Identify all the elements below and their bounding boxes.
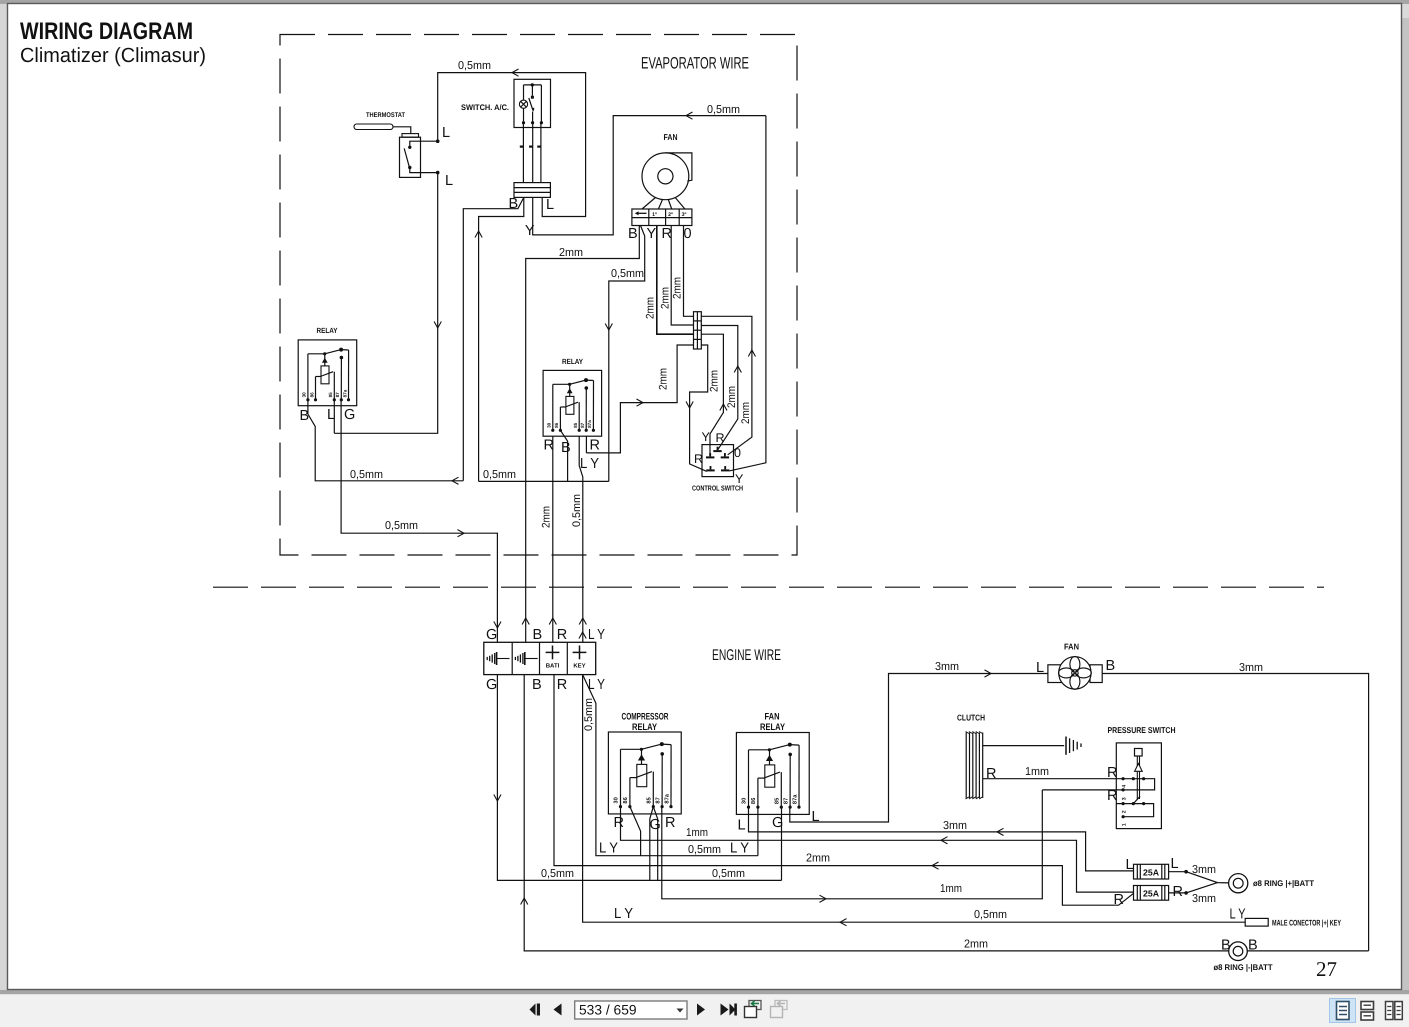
svg-text:MALE CONECTOR |+| KEY: MALE CONECTOR |+| KEY — [1272, 919, 1341, 928]
fuse F1 25A — [1134, 864, 1169, 879]
svg-text:85: 85 — [775, 797, 781, 804]
wire LY diag to compressor (0,5mm) — [583, 675, 758, 856]
svg-text:L: L — [445, 173, 453, 189]
wire left relay 85 (L) — [333, 400, 335, 434]
svg-text:3mm: 3mm — [1239, 662, 1263, 674]
svg-text:3mm: 3mm — [943, 820, 967, 832]
wire switch B to left — [463, 197, 524, 480]
wire fan relay 87 (L) to engine fan — [790, 674, 1048, 823]
ground symbol cell1 — [487, 652, 509, 665]
wire ladder cell3 to control switch Y — [701, 334, 723, 456]
svg-text:3: 3 — [1121, 797, 1127, 800]
svg-text:FAN: FAN — [1064, 642, 1079, 652]
svg-text:R: R — [716, 431, 725, 445]
KEY cell plus — [573, 651, 587, 653]
strip cell arrow glyph — [635, 211, 639, 215]
engine fan motor — [1048, 665, 1062, 683]
svg-text:0,5mm: 0,5mm — [974, 909, 1007, 921]
svg-text:R: R — [614, 815, 624, 831]
svg-text:25A: 25A — [1143, 868, 1160, 878]
svg-text:EVAPORATOR WIRE: EVAPORATOR WIRE — [641, 55, 749, 73]
wire fan B 3mm to right frame — [1102, 674, 1368, 951]
wire fan R to junction ladder — [671, 226, 693, 326]
svg-text:L Y: L Y — [580, 456, 599, 472]
svg-text:ø8 RING |-|BATT: ø8 RING |-|BATT — [1214, 963, 1273, 972]
control switch contacts — [713, 450, 721, 452]
svg-text:PRESSURE SWITCH: PRESSURE SWITCH — [1108, 725, 1176, 735]
relay K1 box — [298, 340, 357, 406]
relay K4 internals — [742, 743, 801, 809]
clutch coil — [966, 732, 983, 799]
svg-text:87a: 87a — [792, 794, 798, 804]
relay K3 box — [608, 732, 681, 814]
svg-text:G: G — [486, 677, 497, 693]
thermostat contacts — [408, 146, 411, 149]
pressure switch box — [1116, 743, 1161, 829]
fuse F1 output 3mm to ring — [1169, 871, 1187, 873]
switch A/C wires down to connector bar — [522, 123, 524, 183]
svg-text:CLUTCH: CLUTCH — [957, 713, 985, 723]
wire center relay 30 (R) down to engine R — [552, 436, 554, 642]
svg-text:25A: 25A — [1143, 889, 1160, 899]
wire thermostat lower L down to left relay 85 — [334, 173, 437, 434]
svg-text:FAN: FAN — [664, 132, 678, 142]
svg-text:KEY: KEY — [573, 663, 585, 670]
svg-text:1mm: 1mm — [686, 827, 708, 839]
svg-text:Y: Y — [647, 226, 657, 242]
section separator dashed line — [213, 586, 1324, 588]
thermostat switch body — [402, 134, 419, 138]
wire compressor 30 (R) to 1mm line — [621, 807, 1135, 893]
svg-text:B: B — [1221, 938, 1231, 954]
svg-text:86: 86 — [554, 422, 559, 428]
svg-text:86: 86 — [623, 797, 629, 803]
fan connector strip — [632, 209, 692, 226]
svg-text:0,5mm: 0,5mm — [688, 844, 721, 856]
wire fan relay 85 to G line — [781, 807, 783, 880]
svg-text:30: 30 — [742, 798, 748, 804]
svg-text:0,5mm: 0,5mm — [385, 520, 418, 532]
svg-text:2mm: 2mm — [645, 297, 657, 319]
svg-text:ENGINE WIRE: ENGINE WIRE — [712, 647, 781, 664]
wire compressor 86 to LY line — [630, 807, 641, 856]
male connector KEY — [1245, 918, 1268, 926]
svg-text:BATI: BATI — [546, 663, 560, 670]
tiny pin ticks — [520, 146, 523, 148]
svg-text:L Y: L Y — [614, 906, 633, 922]
wire LY column to male connector line — [583, 675, 1246, 923]
svg-text:2mm: 2mm — [541, 506, 553, 528]
wire compressor 87 (R) to 1mm line — [662, 790, 1043, 899]
svg-text:4: 4 — [1121, 785, 1127, 788]
svg-text:L Y: L Y — [1230, 907, 1246, 923]
svg-text:SWITCH. A/C.: SWITCH. A/C. — [461, 103, 509, 112]
wire fan Y to junction ladder — [657, 226, 694, 335]
svg-text:B: B — [509, 196, 519, 212]
svg-text:2mm: 2mm — [658, 368, 670, 390]
svg-text:RELAY: RELAY — [632, 722, 658, 733]
wire fan B to 2mm line — [526, 226, 640, 643]
svg-text:0,5mm: 0,5mm — [541, 868, 574, 880]
svg-text:ø8 RING |+|BATT: ø8 RING |+|BATT — [1253, 879, 1314, 888]
switch A/C connector bar — [514, 183, 550, 198]
svg-text:B: B — [532, 677, 542, 693]
wire left relay 30 (B) to switch — [308, 400, 463, 481]
svg-text:RELAY: RELAY — [562, 357, 583, 366]
junction ladder connector — [694, 312, 702, 349]
svg-text:Y: Y — [702, 430, 711, 444]
ring terminal +BATT — [1229, 874, 1248, 893]
svg-text:R: R — [557, 627, 567, 643]
switch A/C internals — [519, 83, 543, 124]
relay K1 internals — [302, 348, 350, 402]
svg-text:THERMOSTAT: THERMOSTAT — [366, 112, 406, 119]
svg-text:L: L — [1036, 660, 1044, 676]
wire fan relay 30 (L) to fuse1 3mm — [749, 807, 1134, 871]
pressure switch internals — [1116, 749, 1154, 827]
svg-text:0,5mm: 0,5mm — [483, 469, 516, 481]
svg-text:27: 27 — [1316, 957, 1337, 981]
chassis ground symbol — [1066, 737, 1081, 755]
svg-text:L: L — [738, 818, 746, 834]
BAT cell plus — [546, 651, 560, 653]
svg-text:2mm: 2mm — [726, 386, 738, 408]
svg-text:R: R — [1173, 884, 1183, 900]
wire 2mm bottom right segment — [1247, 950, 1368, 952]
svg-text:533 / 659: 533 / 659 — [579, 1003, 637, 1018]
svg-text:87: 87 — [655, 797, 661, 803]
svg-text:2mm: 2mm — [964, 939, 988, 951]
wire Y riser to control switch — [729, 116, 766, 471]
svg-text:L: L — [1171, 856, 1179, 872]
svg-text:R: R — [1114, 892, 1124, 908]
wire center relay 85 (LY) down to engine LY — [579, 436, 583, 642]
svg-text:B: B — [628, 226, 638, 242]
svg-text:2mm: 2mm — [559, 247, 583, 259]
svg-text:0,5mm: 0,5mm — [583, 698, 595, 731]
svg-text:87a: 87a — [342, 389, 347, 397]
svg-text:L: L — [546, 197, 554, 213]
svg-text:B: B — [1248, 938, 1258, 954]
wire probe to thermostat switch — [393, 127, 411, 134]
svg-text:B: B — [561, 440, 571, 456]
svg-text:30: 30 — [302, 392, 307, 398]
svg-text:2º: 2º — [668, 212, 673, 218]
wire fan B2 0,5mm — [609, 226, 645, 482]
svg-text:R: R — [662, 226, 672, 242]
engine bulkhead connector — [484, 642, 596, 674]
wire compressor 85 V to G line — [650, 807, 654, 881]
svg-text:G: G — [650, 817, 661, 833]
svg-text:3mm: 3mm — [1192, 864, 1216, 876]
wire fan relay 86 to LY line — [757, 807, 759, 856]
wire center relay 86 (B) — [560, 430, 567, 481]
wire thermostat to node L lower — [410, 168, 438, 173]
svg-text:0,5mm: 0,5mm — [571, 494, 583, 527]
svg-text:1: 1 — [1121, 823, 1127, 826]
relay K2 box — [543, 370, 602, 436]
ground symbol cell2 — [515, 652, 537, 665]
switch A/C box — [514, 79, 551, 127]
svg-text:0,5mm: 0,5mm — [458, 60, 491, 72]
svg-text:R: R — [694, 452, 703, 466]
connector arrows and labels above — [494, 622, 501, 629]
svg-text:B: B — [1106, 658, 1116, 674]
svg-text:Y: Y — [735, 472, 744, 486]
svg-text:0: 0 — [734, 446, 741, 460]
svg-text:L: L — [1126, 857, 1134, 873]
svg-text:1mm: 1mm — [940, 883, 962, 895]
svg-text:L Y: L Y — [730, 841, 749, 857]
svg-text:30: 30 — [614, 797, 620, 803]
wire thermostat to node L upper — [410, 141, 438, 147]
node L lower — [436, 171, 440, 175]
svg-text:0,5mm: 0,5mm — [707, 104, 740, 116]
fan leads to connector strip — [642, 198, 656, 210]
wire ladder cell2 to control switch R top — [701, 326, 738, 450]
svg-text:3mm: 3mm — [1192, 893, 1216, 905]
svg-text:0: 0 — [684, 226, 692, 242]
wire pressure switch row2 left (R) — [1042, 789, 1123, 791]
svg-text:85: 85 — [328, 392, 333, 398]
svg-text:0,5mm: 0,5mm — [611, 268, 644, 280]
svg-text:0,5mm: 0,5mm — [350, 469, 383, 481]
svg-text:87: 87 — [580, 422, 585, 428]
svg-text:COMPRESSOR: COMPRESSOR — [622, 712, 669, 723]
svg-text:85: 85 — [647, 796, 653, 803]
svg-text:R: R — [665, 815, 675, 831]
svg-text:L Y: L Y — [588, 627, 605, 643]
svg-text:2mm: 2mm — [660, 287, 672, 309]
wire 0,5mm cross link — [479, 480, 609, 482]
svg-text:R: R — [590, 438, 600, 454]
svg-text:Climatizer (Climasur): Climatizer (Climasur) — [20, 44, 206, 67]
svg-text:RELAY: RELAY — [760, 722, 786, 733]
svg-text:87a: 87a — [587, 420, 592, 428]
wire center relay 87 to ladder (2mm) — [585, 436, 587, 453]
wire clutch to chassis ground — [983, 745, 1065, 747]
relay K2 internals — [547, 378, 595, 432]
wire clutch R 1mm to pressure switch — [983, 778, 1144, 780]
svg-text:2mm: 2mm — [806, 853, 830, 865]
wire ladder cell1 to control switch O — [701, 316, 752, 455]
evaporator dashed boundary box — [280, 35, 797, 556]
relay K3 internals — [614, 742, 673, 808]
wire 0,5mm top loop — [438, 73, 586, 217]
svg-text:Y: Y — [525, 223, 535, 239]
svg-text:1mm: 1mm — [1025, 766, 1049, 778]
control switch box — [702, 445, 734, 477]
wire fan O to junction ladder — [684, 226, 694, 317]
svg-text:2mm: 2mm — [672, 277, 684, 299]
svg-text:0,5mm: 0,5mm — [712, 868, 745, 880]
svg-text:FAN: FAN — [765, 712, 780, 723]
thermostat probe — [354, 124, 393, 130]
toolbar — [0, 994, 1409, 1027]
wire ladder cell4 to control switch R left — [586, 345, 693, 453]
ring terminal -BATT — [1229, 942, 1248, 961]
svg-text:86: 86 — [751, 798, 757, 804]
fuse F2 25A — [1134, 886, 1169, 901]
svg-text:3mm: 3mm — [935, 661, 959, 673]
wire switch Y down right — [533, 116, 766, 235]
svg-text:R: R — [986, 766, 996, 782]
svg-text:G: G — [344, 407, 355, 423]
svg-text:L Y: L Y — [599, 841, 618, 857]
fuse F2 output 3mm to ring — [1169, 892, 1187, 894]
node L upper — [436, 139, 440, 143]
svg-text:G: G — [486, 627, 497, 643]
svg-text:1º: 1º — [652, 212, 657, 218]
svg-text:R: R — [557, 677, 567, 693]
svg-text:2mm: 2mm — [740, 402, 752, 424]
svg-text:87a: 87a — [664, 793, 670, 803]
svg-text:87: 87 — [783, 798, 789, 804]
wire left relay 87 (G) down to engine G — [341, 400, 497, 643]
svg-text:WIRING DIAGRAM: WIRING DIAGRAM — [20, 18, 193, 45]
svg-text:30: 30 — [547, 422, 552, 428]
fan blower symbol — [642, 153, 689, 200]
svg-text:L: L — [442, 125, 450, 141]
svg-text:87: 87 — [335, 392, 340, 398]
wire G column to compressor 85 — [497, 675, 781, 881]
svg-text:2: 2 — [1121, 810, 1127, 813]
wire B column to 2mm bottom line — [524, 675, 1229, 951]
wire R column to fuse2 — [554, 675, 1134, 906]
svg-text:B: B — [533, 627, 543, 643]
svg-text:86: 86 — [309, 392, 314, 398]
svg-text:RELAY: RELAY — [317, 326, 338, 335]
svg-text:3º: 3º — [682, 212, 687, 218]
svg-text:85: 85 — [573, 422, 578, 428]
wire switch B to engine (0,5mm riser) — [479, 197, 524, 481]
svg-text:2mm: 2mm — [708, 370, 720, 392]
relay K4 box — [736, 733, 809, 815]
